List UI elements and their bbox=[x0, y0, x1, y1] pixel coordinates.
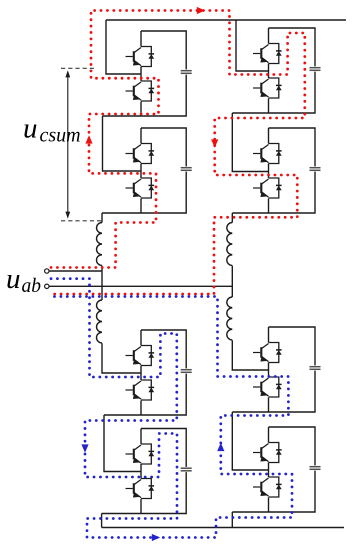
svg-text:csum: csum bbox=[40, 125, 81, 147]
svg-text:u: u bbox=[6, 263, 21, 295]
svg-text:u: u bbox=[23, 113, 38, 145]
svg-text:ab: ab bbox=[22, 276, 42, 297]
